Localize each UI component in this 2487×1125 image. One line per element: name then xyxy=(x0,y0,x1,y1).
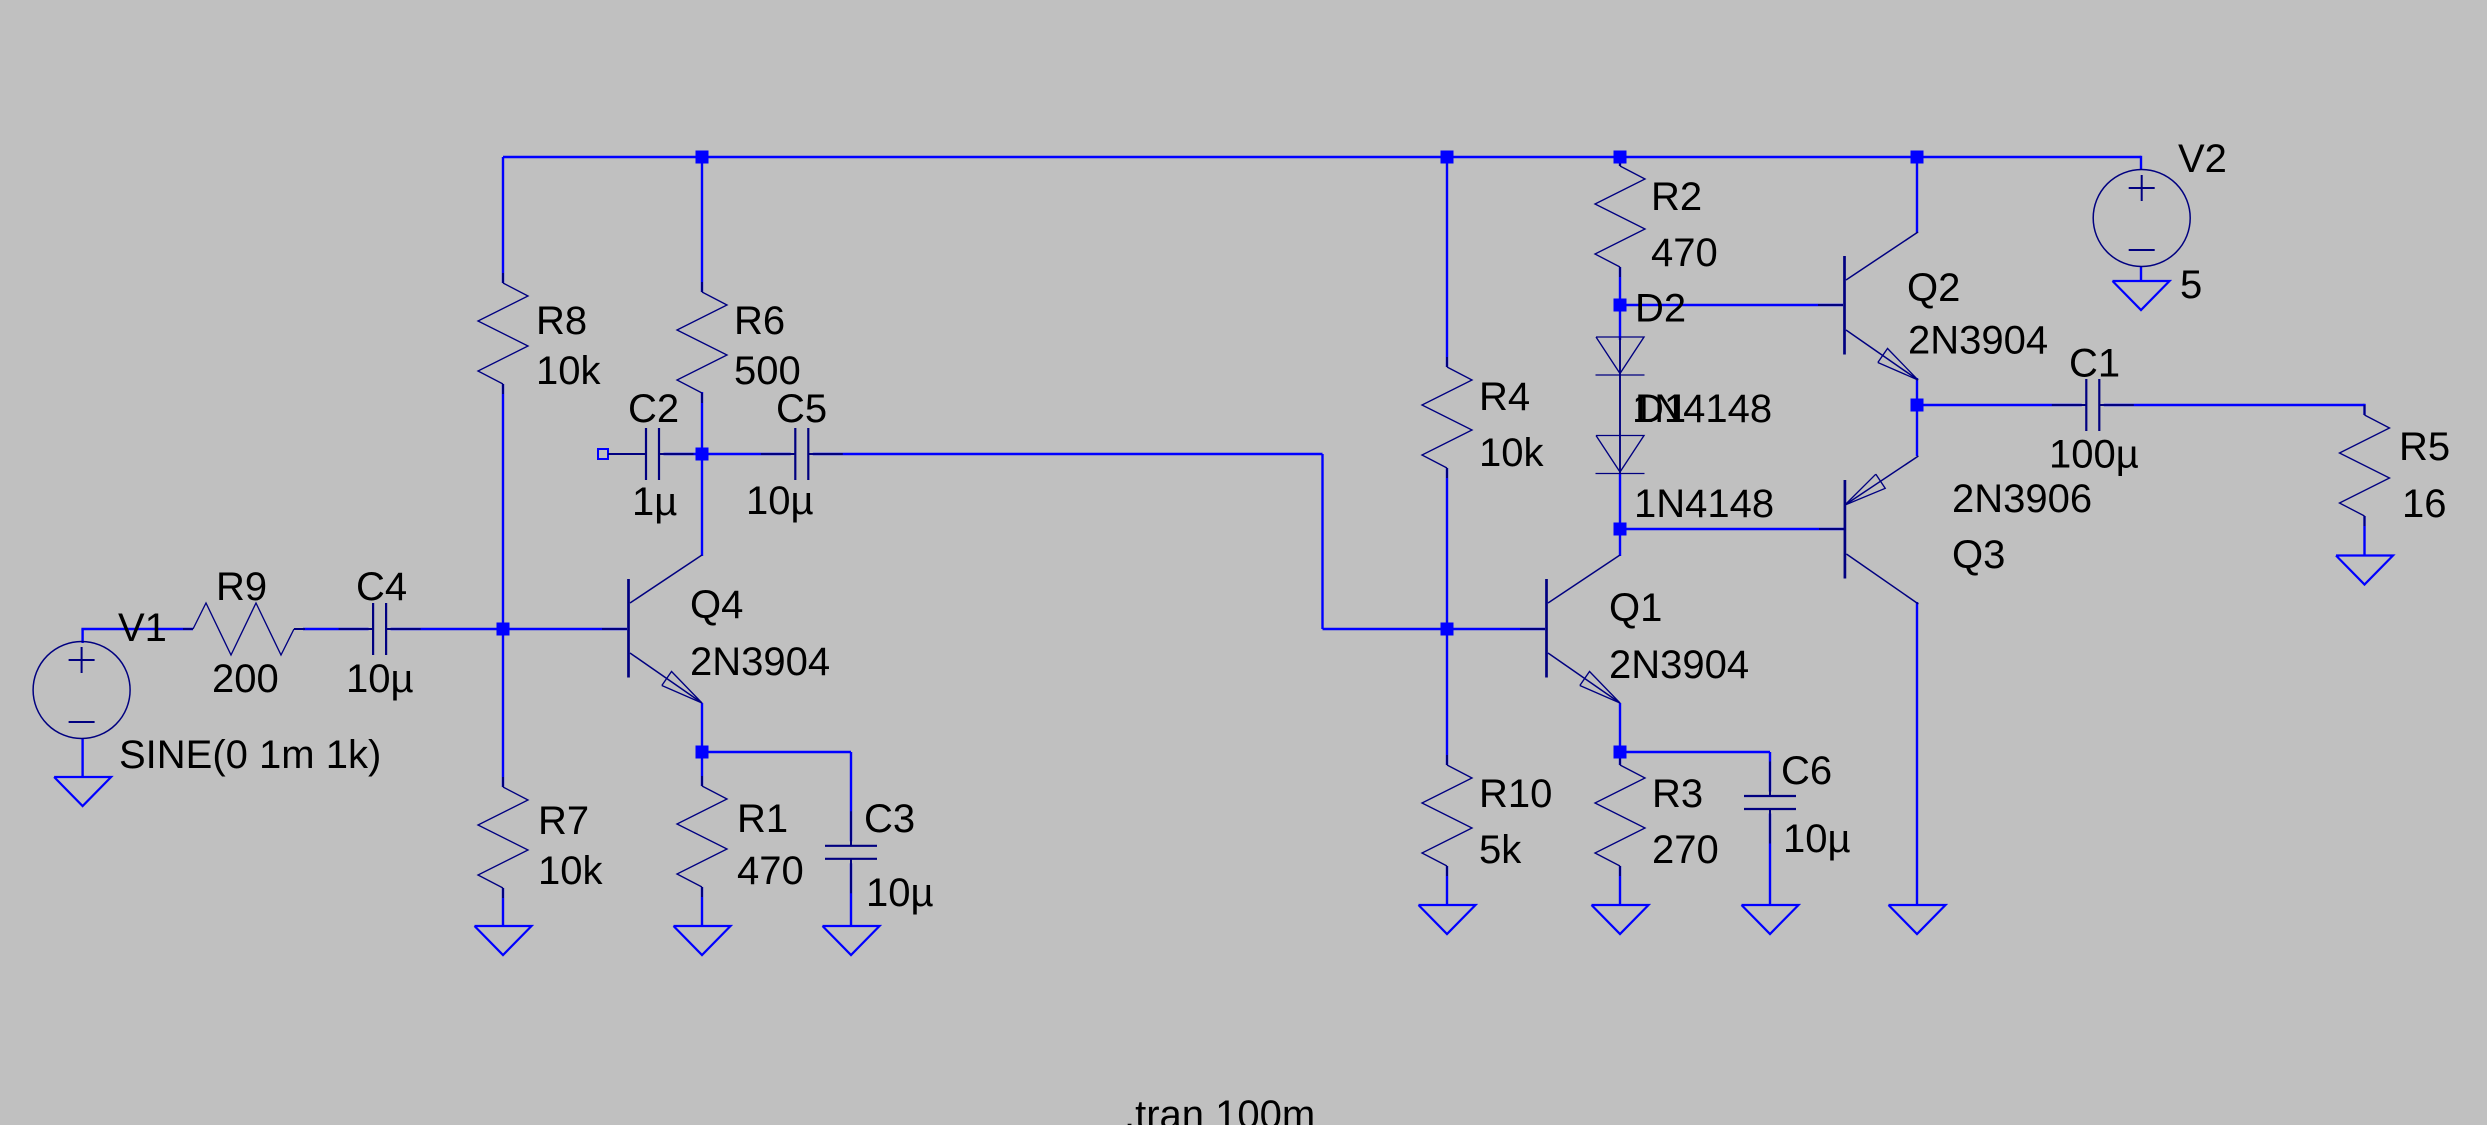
svg-text:D2: D2 xyxy=(1635,287,1686,331)
wire V1 to R9 (top stub) xyxy=(81,629,83,643)
wire V1 bottom to ground xyxy=(81,738,83,778)
wire R10 to ground xyxy=(1446,866,1448,905)
label C2 xyxy=(628,387,679,431)
label 100µ xyxy=(2049,433,2139,477)
wire R7 top lead xyxy=(502,629,504,787)
label 16 xyxy=(2402,482,2447,526)
wire R8 to base node xyxy=(502,384,504,629)
svg-text:C4: C4 xyxy=(356,565,407,609)
label D1 xyxy=(1635,387,1686,431)
node junction Q2 emitter/Q3/C1 xyxy=(1911,399,1924,412)
wire rail to R4 xyxy=(1446,157,1448,367)
resistor R8 xyxy=(478,273,528,394)
svg-text:Q1: Q1 xyxy=(1609,586,1662,630)
wire R4 node to Q1 base xyxy=(1447,628,1545,630)
capacitor C5 xyxy=(761,426,843,482)
node junction D2/R2/Q2 base xyxy=(1614,299,1627,312)
wire D1 to 1N4148 node xyxy=(1619,474,1621,529)
wire R7 to ground xyxy=(502,888,504,926)
wire R3 to ground xyxy=(1619,866,1621,905)
wire Q4 emitter to R1 node xyxy=(701,703,703,752)
wire C2 to node xyxy=(645,453,702,455)
label C3 xyxy=(864,797,915,841)
svg-text:2N3904: 2N3904 xyxy=(1609,643,1749,687)
svg-text:10k: 10k xyxy=(1479,431,1544,475)
label 10µ xyxy=(346,657,414,701)
label 10k xyxy=(1479,431,1544,475)
node junction Q4 emitter/R1/C3 xyxy=(696,746,709,759)
wire R6 to C2/C5 node to Q4 collector xyxy=(701,392,703,556)
wire R1 top lead xyxy=(701,752,703,786)
svg-text:R2: R2 xyxy=(1651,175,1702,219)
wire rail to R8 xyxy=(502,157,504,283)
label R4 xyxy=(1479,375,1530,419)
wire top supply rail xyxy=(503,156,2141,158)
label R3 xyxy=(1652,772,1703,816)
wire R4 bottom lead xyxy=(1446,468,1448,629)
diode D2 xyxy=(1596,337,1645,375)
resistor R4 xyxy=(1422,357,1472,478)
svg-text:2N3904: 2N3904 xyxy=(690,640,830,684)
voltage source V2 xyxy=(2093,170,2190,267)
label C6 xyxy=(1781,749,1832,793)
svg-text:R3: R3 xyxy=(1652,772,1703,816)
label 2N3904 xyxy=(1609,643,1749,687)
resistor R1 xyxy=(677,776,727,897)
label R2 xyxy=(1651,175,1702,219)
svg-text:R1: R1 xyxy=(737,797,788,841)
svg-text:R4: R4 xyxy=(1479,375,1530,419)
wire rail to R6 xyxy=(701,157,703,292)
svg-text:Q2: Q2 xyxy=(1907,266,1960,310)
svg-text:470: 470 xyxy=(1651,231,1718,275)
node junction R4/Q1 base xyxy=(1441,623,1454,636)
svg-text:C2: C2 xyxy=(628,387,679,431)
svg-text:10k: 10k xyxy=(538,849,603,893)
wire V1 corner to R9 xyxy=(81,628,193,630)
label 270 xyxy=(1652,828,1719,872)
wire bend down xyxy=(1321,454,1323,629)
label R5 xyxy=(2399,425,2450,469)
wire out node through C1 to bend xyxy=(1917,404,2365,406)
node junction rail/R4 xyxy=(1441,151,1454,164)
port marker C2 input xyxy=(598,449,648,459)
svg-text:5: 5 xyxy=(2180,263,2202,307)
wire Q1 emitter to R3 node xyxy=(1619,703,1621,752)
svg-text:C3: C3 xyxy=(864,797,915,841)
label 2N3906 xyxy=(1952,477,2092,521)
svg-text:R10: R10 xyxy=(1479,772,1552,816)
label R6 xyxy=(734,299,785,343)
wire C3 column xyxy=(850,752,852,926)
wire bend to R4 node xyxy=(1323,628,1448,630)
label .tran 100m xyxy=(1124,1093,1315,1125)
svg-text:2N3906: 2N3906 xyxy=(1952,477,2092,521)
wire R3 node to C6 xyxy=(1620,751,1770,753)
svg-text:10µ: 10µ xyxy=(346,657,414,701)
resistor R5 xyxy=(2340,405,2390,526)
wire Q1 collector xyxy=(1619,529,1621,556)
svg-text:Q3: Q3 xyxy=(1952,533,2005,577)
svg-text:.tran 100m: .tran 100m xyxy=(1124,1093,1315,1125)
svg-text:10k: 10k xyxy=(536,349,601,393)
svg-text:V1: V1 xyxy=(118,606,167,650)
voltage source V1 xyxy=(33,642,130,739)
resistor R3 xyxy=(1595,755,1645,876)
svg-text:1µ: 1µ xyxy=(632,480,677,524)
wire rail to R2 xyxy=(1619,157,1621,166)
diode D1 xyxy=(1596,436,1645,474)
label R9 xyxy=(216,565,267,609)
label 10µ xyxy=(1783,817,1851,861)
capacitor C1 xyxy=(2052,377,2134,433)
svg-text:10µ: 10µ xyxy=(1783,817,1851,861)
label Q4 xyxy=(690,583,743,627)
ground V2 xyxy=(2113,281,2170,310)
wire R1 node to C3 xyxy=(702,751,851,753)
label 10µ xyxy=(866,871,934,915)
node junction rail/Q2 xyxy=(1911,151,1924,164)
wire diode column xyxy=(1619,305,1621,340)
svg-text:R8: R8 xyxy=(536,299,587,343)
label C1 xyxy=(2069,342,2120,386)
resistor R9 xyxy=(183,603,305,655)
label 500 xyxy=(734,349,801,393)
svg-text:10µ: 10µ xyxy=(866,871,934,915)
label 470 xyxy=(737,849,804,893)
svg-text:C6: C6 xyxy=(1781,749,1832,793)
wire Q2 collector to rail xyxy=(1916,157,1918,233)
ground R3 xyxy=(1592,905,1649,934)
label 1N4148 xyxy=(1634,482,1774,526)
label Q3 xyxy=(1952,533,2005,577)
wire base node to Q4 xyxy=(503,628,627,630)
wire Q3 collector to ground xyxy=(1916,602,1918,905)
svg-text:R9: R9 xyxy=(216,565,267,609)
ground R5 xyxy=(2336,556,2393,585)
label D2 xyxy=(1635,287,1686,331)
ground C6 xyxy=(1742,905,1799,934)
svg-text:470: 470 xyxy=(737,849,804,893)
ground R10 xyxy=(1419,905,1476,934)
label 1µ xyxy=(632,480,677,524)
resistor R7 xyxy=(478,777,528,898)
transistor Q3 xyxy=(1845,456,1919,604)
node junction rail/R2 xyxy=(1614,151,1627,164)
capacitor C4 xyxy=(339,601,421,657)
svg-text:D1: D1 xyxy=(1635,387,1686,431)
ground C3 xyxy=(823,926,880,955)
wire C6 column xyxy=(1769,752,1771,905)
label 2N3904 xyxy=(690,640,830,684)
transistor Q4 xyxy=(629,555,703,703)
node junction Q1 emitter/R3/C6 xyxy=(1614,746,1627,759)
label SINE(0 1m 1k) xyxy=(119,733,381,777)
label C4 xyxy=(356,565,407,609)
label R10 xyxy=(1479,772,1552,816)
svg-text:Q4: Q4 xyxy=(690,583,743,627)
wire R4 node to R10 xyxy=(1446,629,1448,765)
transistor Q2 xyxy=(1845,232,1919,380)
svg-text:200: 200 xyxy=(212,657,279,701)
wire R9 to C4 to base node xyxy=(303,628,503,630)
resistor R10 xyxy=(1422,755,1472,876)
capacitor C3 xyxy=(823,811,879,893)
label R7 xyxy=(538,799,589,843)
svg-text:V2: V2 xyxy=(2178,137,2227,181)
wire V2 bottom to ground xyxy=(2140,266,2142,281)
label 1N4148 xyxy=(1632,387,1772,431)
wire bend to R5 xyxy=(2363,404,2365,415)
svg-text:10µ: 10µ xyxy=(746,479,814,523)
ground R7 xyxy=(475,926,532,955)
svg-text:C5: C5 xyxy=(776,387,827,431)
capacitor C2 xyxy=(612,426,694,482)
wire diode interlead xyxy=(1619,338,1621,529)
wire R1 to ground xyxy=(701,887,703,926)
node junction C2/C5/R6 xyxy=(696,448,709,461)
wire 1N4148 node to Q3 base xyxy=(1620,528,1844,530)
svg-text:R7: R7 xyxy=(538,799,589,843)
wire R5 to ground xyxy=(2363,516,2365,556)
svg-text:100µ: 100µ xyxy=(2049,433,2139,477)
svg-text:16: 16 xyxy=(2402,482,2447,526)
node junction rail/R6 xyxy=(696,151,709,164)
label 470 xyxy=(1651,231,1718,275)
svg-text:R6: R6 xyxy=(734,299,785,343)
label 10k xyxy=(536,349,601,393)
label 2N3904 xyxy=(1908,319,2048,363)
svg-text:C1: C1 xyxy=(2069,342,2120,386)
label R8 xyxy=(536,299,587,343)
label Q2 xyxy=(1907,266,1960,310)
wire R3 top lead xyxy=(1619,752,1621,765)
svg-text:2N3904: 2N3904 xyxy=(1908,319,2048,363)
ground Q3 collector xyxy=(1889,905,1946,934)
label R1 xyxy=(737,797,788,841)
resistor R6 xyxy=(677,282,727,403)
svg-text:SINE(0 1m 1k): SINE(0 1m 1k) xyxy=(119,733,381,777)
wire D2 node to Q2 base xyxy=(1620,304,1843,306)
ground V1 xyxy=(54,777,111,806)
node junction Q4 base xyxy=(497,623,510,636)
label 200 xyxy=(212,657,279,701)
svg-text:R5: R5 xyxy=(2399,425,2450,469)
wire out node to Q3 emitter xyxy=(1916,405,1918,456)
wire Q2 emitter to out node xyxy=(1916,378,1918,405)
ground R1 xyxy=(674,926,731,955)
label V2 xyxy=(2178,137,2227,181)
label 5 xyxy=(2180,263,2202,307)
svg-text:5k: 5k xyxy=(1479,828,1522,872)
resistor R2 xyxy=(1595,156,1645,277)
wire node to C5 to bend xyxy=(702,453,1323,455)
label 10k xyxy=(538,849,603,893)
svg-text:1N4148: 1N4148 xyxy=(1634,482,1774,526)
label Q1 xyxy=(1609,586,1662,630)
node junction D1/Q1 collector/Q3 base xyxy=(1614,523,1627,536)
capacitor C6 xyxy=(1742,762,1798,844)
label 5k xyxy=(1479,828,1522,872)
wire R2 to D2 node xyxy=(1619,267,1621,305)
svg-text:270: 270 xyxy=(1652,828,1719,872)
label V1 xyxy=(118,606,167,650)
label 10µ xyxy=(746,479,814,523)
wire rail to V2 xyxy=(2140,156,2142,170)
transistor Q1 xyxy=(1547,555,1621,703)
label C5 xyxy=(776,387,827,431)
